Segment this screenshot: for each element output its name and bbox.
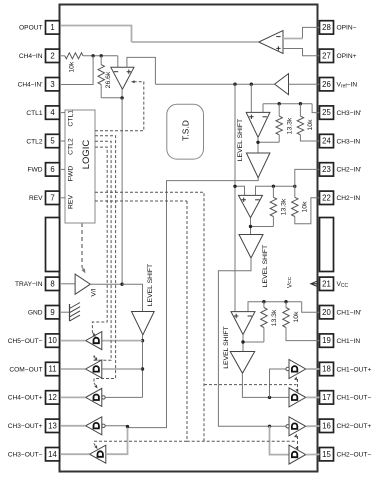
svg-text:CH4−OUT+: CH4−OUT+ <box>8 395 43 402</box>
junction dot left chain <box>120 283 123 286</box>
driver D18 CH1-OUT+ (right-pointing) <box>289 360 306 379</box>
wire CH1 feedback to output <box>243 341 264 343</box>
resistor R 10k CH4 input <box>65 53 83 59</box>
wire U4 output down <box>257 137 259 153</box>
svg-text:FWD: FWD <box>68 166 75 182</box>
wire pin 6 to LOGIC <box>61 168 65 170</box>
pin 6 box and label FWD <box>27 163 59 176</box>
resistor R 13.3k CH2 feedback <box>272 186 274 197</box>
inverting bubble driver 18 <box>286 367 289 370</box>
wire CH3 feedback to output <box>258 141 279 143</box>
wire CH4 output rail down <box>121 98 123 284</box>
wire CH2 feedback to output <box>251 226 274 228</box>
pin 2 box and label CH4−IN <box>19 49 60 62</box>
wire driver 11 input <box>102 368 143 370</box>
junction dot CH1 output <box>241 340 244 343</box>
wire pin 7 to LOGIC <box>61 197 65 199</box>
svg-text:CH4−IN': CH4−IN' <box>18 82 43 89</box>
driver D12 CH4-OUT+ (left-pointing) <box>86 388 102 406</box>
wire node to pin 23 CH2-IN' <box>295 169 320 186</box>
pin 22 box and label <box>320 191 361 204</box>
V/I converter triangle <box>75 274 90 294</box>
pin 26 box and label <box>320 78 358 91</box>
power symbol Vcc arrow at pin 21 <box>312 283 320 285</box>
pin 3 box and label CH4−IN' <box>18 78 60 91</box>
level shifter buffer CH2 (down-pointing) <box>239 235 263 259</box>
svg-text:2: 2 <box>50 51 54 60</box>
svg-text:23: 23 <box>322 165 331 174</box>
svg-text:VCC: VCC <box>337 281 349 289</box>
pin 15 box and label <box>320 448 372 461</box>
wire branch down to driver 15 <box>270 426 290 454</box>
dashed control to driver 10 <box>92 147 107 332</box>
wire driver 14 feed <box>106 428 128 455</box>
svg-text:22: 22 <box>322 193 331 202</box>
svg-text:14: 14 <box>48 450 57 459</box>
svg-text:8: 8 <box>50 279 54 288</box>
op-amp U5 CH2 (down-pointing) <box>239 195 263 217</box>
svg-text:26: 26 <box>322 80 331 89</box>
wire pin 2 to resistor 10k <box>61 55 65 57</box>
svg-text:CH2−IN: CH2−IN <box>337 195 361 202</box>
svg-text:CH2−IN': CH2−IN' <box>337 167 362 174</box>
svg-text:10k: 10k <box>69 61 76 73</box>
wire node to pin 25 CH3-IN' <box>312 104 319 113</box>
block LOGIC <box>65 110 95 223</box>
junction dot CH1 route <box>268 396 271 399</box>
svg-text:CTL1: CTL1 <box>68 110 75 127</box>
wire op-amp U1 output node <box>121 89 123 98</box>
wire driver 13 output to pin 13 <box>61 425 86 427</box>
svg-text:LEVEL SHIFT: LEVEL SHIFT <box>147 264 154 306</box>
inverting bubble driver 13 <box>102 424 105 427</box>
svg-text:24: 24 <box>322 137 331 146</box>
junction dot driver 10 tap <box>141 339 144 342</box>
driver D10 CH5-OUT- (left-pointing) <box>86 332 102 350</box>
wire driver 10 output to pin 10 <box>61 340 86 342</box>
resistor R 10k CH1 input <box>285 302 287 308</box>
junction dot CH2 10k top <box>293 185 296 188</box>
dashed trunk to drivers 16/15 and 14 <box>187 201 297 441</box>
node dot A2 top of 26.6k <box>100 54 103 57</box>
pin 13 box and label CH3−OUT+ <box>8 419 60 432</box>
pin 1 box and label OPOUT <box>19 21 59 34</box>
svg-text:16: 16 <box>322 421 331 430</box>
svg-text:10k: 10k <box>293 311 300 323</box>
dashed trunk to drivers 18/17 <box>95 192 204 441</box>
svg-text:TRAY−IN: TRAY−IN <box>15 281 43 288</box>
dashed control to CH4 op-amp <box>95 82 144 131</box>
pin 27 box and label <box>320 49 357 62</box>
wire CH1 node <box>248 302 302 312</box>
resistor R 13.3k CH1 feedback <box>263 302 265 308</box>
svg-text:LOGIC: LOGIC <box>81 140 92 170</box>
resistor R 13.3k CH3 feedback <box>278 104 280 116</box>
level shifter buffer CH1 (down-pointing) <box>230 352 255 374</box>
svg-text:Vref−IN: Vref−IN <box>337 82 358 90</box>
svg-text:CH3−IN': CH3−IN' <box>337 110 362 117</box>
driver D17 CH1-OUT- (right-pointing) <box>289 388 306 407</box>
junction dot CH2 output <box>249 225 252 228</box>
svg-text:CH4−IN: CH4−IN <box>19 53 43 60</box>
inverting bubble driver 12 <box>102 396 105 399</box>
wire pin 26 to U3 input <box>289 83 320 85</box>
svg-text:4: 4 <box>50 108 55 117</box>
wire branch up to driver 18 <box>270 369 287 397</box>
svg-text:REV: REV <box>29 195 43 202</box>
wire pin 8 TRAY-IN to V/I <box>61 283 75 285</box>
wire level shift output down to drivers <box>142 335 144 396</box>
svg-text:7: 7 <box>50 193 54 202</box>
wire driver 11 output to pin 11 <box>61 368 86 370</box>
wire driver 16 output to pin 16 <box>306 425 320 427</box>
svg-text:CH1−IN: CH1−IN <box>337 338 361 345</box>
junction dot CH3 output <box>256 141 259 144</box>
svg-text:5: 5 <box>50 137 55 146</box>
pin 7 box and label REV <box>29 191 60 204</box>
svg-text:CH2−OUT+: CH2−OUT+ <box>337 423 372 430</box>
svg-text:19: 19 <box>322 336 331 345</box>
IC body outline <box>60 5 318 472</box>
junction dot Vref rail <box>233 83 236 86</box>
op-amp U6 CH1 (down-pointing) <box>231 312 255 335</box>
driver D16 CH2-OUT+ (right-pointing) <box>289 417 306 436</box>
svg-text:10k: 10k <box>307 119 314 131</box>
level shifter buffer CH4/CH5 (down-pointing) <box>132 312 155 335</box>
wire CH2 node <box>256 186 295 195</box>
svg-text:CTL1: CTL1 <box>26 110 42 117</box>
dashed control to driver 12 <box>94 136 116 383</box>
driver D11 COM-OUT (left-pointing) <box>86 360 102 378</box>
wire 10k to pin 22 CH2-IN <box>295 198 320 224</box>
svg-text:3: 3 <box>50 80 54 89</box>
svg-text:1: 1 <box>50 23 54 32</box>
pin 16 box and label <box>320 419 372 432</box>
resistor R 26.6k feedback <box>100 56 102 65</box>
pin 14 box and label CH3−OUT− <box>8 448 60 461</box>
wire pin 5 to LOGIC <box>61 140 65 142</box>
driver D15 CH2-OUT- (right-pointing) <box>289 445 306 464</box>
svg-text:COM−OUT: COM−OUT <box>9 366 42 373</box>
wire driver 14 output to pin 14 <box>61 453 90 455</box>
svg-text:FWD: FWD <box>27 167 42 174</box>
wire driver 10 input <box>102 340 143 342</box>
op-amp U1 CH4 (down-pointing) <box>117 56 119 68</box>
junction dot CH1 10k top <box>284 300 287 303</box>
dashed control to driver 11 <box>94 141 111 360</box>
pin 17 box and label <box>320 391 372 404</box>
svg-text:12: 12 <box>48 393 57 402</box>
pin 18 box and label <box>320 362 372 375</box>
svg-text:VCC: VCC <box>287 276 294 288</box>
junction dot driver 13/14 tap <box>126 425 129 428</box>
svg-text:CTL2: CTL2 <box>26 138 42 145</box>
junction dot CH3 13.3k top <box>278 102 281 105</box>
wire pin 3 to node A <box>61 56 93 85</box>
svg-text:17: 17 <box>322 393 331 402</box>
svg-text:V/I: V/I <box>91 288 98 296</box>
junction dot CH2 13.3k top <box>272 185 275 188</box>
pin 12 box and label CH4−OUT+ <box>8 391 60 404</box>
svg-text:OPOUT: OPOUT <box>19 25 42 32</box>
wire driver 12 input <box>142 395 144 397</box>
wire CH1 level shift output to drivers 18/17 <box>242 373 289 397</box>
junction dot CH4 output <box>120 96 123 99</box>
wire driver 15 output to pin 15 <box>306 453 320 455</box>
wire driver 13 input from CH3 route <box>105 425 127 427</box>
svg-text:CH1−OUT+: CH1−OUT+ <box>337 366 372 373</box>
svg-text:CH3−OUT−: CH3−OUT− <box>8 452 43 459</box>
svg-text:OPIN+: OPIN+ <box>337 53 357 60</box>
wire pin 28 to U2 minus input <box>303 27 320 38</box>
driver D14 CH3-OUT- (left-pointing) <box>90 445 106 463</box>
wire node A: resistor to minus riser <box>83 55 118 57</box>
resistor R 10k CH2 input <box>294 186 296 197</box>
pin 21 box and label <box>320 277 349 290</box>
wire CH3 level shift output routed left <box>128 178 259 428</box>
svg-text:CH3−IN: CH3−IN <box>337 138 361 145</box>
resistor R 10k CH3 input <box>299 104 301 116</box>
junction dot driver 11 tap <box>141 367 144 370</box>
svg-text:27: 27 <box>322 51 331 60</box>
Vref rail down <box>234 84 236 311</box>
svg-text:GND: GND <box>28 310 43 317</box>
svg-text:13.3k: 13.3k <box>281 198 288 215</box>
dashed arrows drivers 18/17 <box>297 379 299 390</box>
wire to left level shifter <box>122 284 142 311</box>
pin 24 box and label <box>320 134 361 147</box>
right unnumbered tab pin <box>320 218 334 272</box>
pin 23 box and label <box>320 163 362 176</box>
wire CH3 node <box>263 103 312 105</box>
wire U3 output Vref line <box>155 83 274 85</box>
pin 5 box and label CTL2 <box>26 134 59 147</box>
pin 8 box and label TRAY−IN <box>15 277 60 290</box>
pin 25 box and label <box>320 106 362 119</box>
wire 10k to pin 24 CH3-IN <box>300 135 319 141</box>
svg-text:20: 20 <box>322 308 331 317</box>
svg-text:REV: REV <box>68 195 75 209</box>
wire pin 4 to LOGIC <box>61 112 65 114</box>
wire V/I output to summing node <box>90 283 122 285</box>
svg-text:CTL2: CTL2 <box>68 138 75 155</box>
dashed arrows drivers 16/15 <box>297 436 299 448</box>
junction dot CH3 10k top <box>299 102 302 105</box>
wire U6 output down <box>242 335 244 352</box>
wire 26.6k bottom to output node <box>101 97 122 99</box>
svg-text:OPIN−: OPIN− <box>337 25 357 32</box>
pin 19 box and label <box>320 334 361 347</box>
wire driver 12 output to pin 12 <box>61 396 86 398</box>
svg-text:11: 11 <box>48 365 56 374</box>
pin 20 box and label <box>320 306 362 319</box>
wire Vref branch to CH2 plus input <box>235 186 245 195</box>
pin 4 box and label CTL1 <box>26 106 59 119</box>
node dot A1 <box>91 54 94 57</box>
dashed control V/I <box>81 223 83 267</box>
junction dot Vref to CH3 plus <box>250 83 253 86</box>
svg-text:10k: 10k <box>302 201 309 213</box>
inverting bubble driver 16 <box>286 425 289 428</box>
svg-text:26.6k: 26.6k <box>105 71 112 88</box>
wire 10k to pin 19 CH1-IN <box>286 328 320 341</box>
wire op-amp U1 plus input to Vref line <box>127 57 155 84</box>
buffer U3 Vref (left-pointing) <box>275 74 289 95</box>
svg-text:25: 25 <box>322 108 331 117</box>
svg-text:9: 9 <box>50 308 54 317</box>
svg-text:CH1−IN': CH1−IN' <box>337 310 362 317</box>
wire CH3 node to minus input <box>262 104 264 113</box>
svg-text:LEVEL SHIFT: LEVEL SHIFT <box>223 326 230 368</box>
svg-text:13: 13 <box>48 421 57 430</box>
svg-text:CH2−OUT−: CH2−OUT− <box>337 452 372 459</box>
svg-text:13.3k: 13.3k <box>287 117 294 134</box>
level shifter buffer CH3 (down-pointing) <box>246 153 270 178</box>
pin 11 box and label COM−OUT <box>9 362 59 375</box>
svg-text:CH3−OUT+: CH3−OUT+ <box>8 423 43 430</box>
pin 28 box and label <box>320 21 357 34</box>
svg-text:10: 10 <box>48 336 57 345</box>
wire U2 output to pin 1 OPOUT <box>132 41 259 43</box>
svg-text:21: 21 <box>322 279 331 288</box>
wire driver 17 output to pin 17 <box>306 396 320 398</box>
left unnumbered tab pin <box>46 218 60 272</box>
op-amp U4 CH3 (down-pointing) <box>250 84 252 112</box>
svg-text:6: 6 <box>50 165 54 174</box>
pin 10 box and label CH5−OUT− <box>8 334 60 347</box>
wire U5 output down <box>250 218 252 235</box>
driver D13 CH3-OUT+ (left-pointing) <box>86 417 102 435</box>
svg-text:CH5−OUT−: CH5−OUT− <box>8 338 43 345</box>
wire driver 18 output to pin 18 <box>306 368 320 370</box>
junction dot CH1 13.3k top <box>262 300 265 303</box>
svg-text:13.3k: 13.3k <box>271 309 278 326</box>
wire node to pin 20 CH1-IN' <box>302 302 320 313</box>
svg-text:28: 28 <box>322 23 331 32</box>
svg-text:LEVEL SHIFT: LEVEL SHIFT <box>237 119 244 161</box>
svg-text:CH1−OUT−: CH1−OUT− <box>337 395 372 402</box>
op-amp U2 OPIN (left-pointing) <box>259 31 283 54</box>
junction dot Vref CH2 <box>233 185 236 188</box>
pin 9 box and label GND <box>28 306 60 319</box>
wire pin 27 to U2 plus input <box>283 49 320 56</box>
block T.S.D thermal shutdown <box>167 104 204 159</box>
svg-text:18: 18 <box>322 365 331 374</box>
junction dot CH2 route <box>268 425 271 428</box>
wire CH2 level shift output routed to drivers 16/15 <box>218 258 286 426</box>
svg-text:LEVEL SHIFT: LEVEL SHIFT <box>262 245 269 287</box>
svg-text:15: 15 <box>322 450 331 459</box>
svg-text:T.S.D: T.S.D <box>181 120 191 141</box>
ground symbol at pin 9 <box>61 311 70 313</box>
